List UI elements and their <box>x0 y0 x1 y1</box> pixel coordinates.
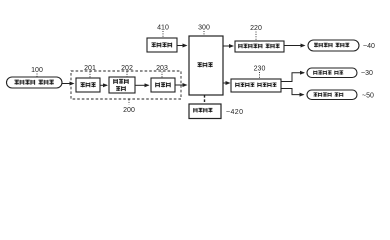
arrow 202 to 203 <box>135 84 149 86</box>
svg-text:~40: ~40 <box>363 43 375 50</box>
arrow oval to 201 <box>62 83 74 85</box>
svg-text:203: 203 <box>156 65 168 72</box>
svg-text:100: 100 <box>31 67 43 74</box>
dashed group 200 <box>71 71 181 99</box>
svg-text:~50: ~50 <box>362 93 374 100</box>
leader tick 200 <box>128 100 130 105</box>
arrow 201 to 202 <box>100 84 107 86</box>
leader tick 230 <box>259 72 261 79</box>
svg-text:202: 202 <box>121 65 133 72</box>
wire 230 to sensor 30 <box>281 73 304 82</box>
rounded sensor 50 <box>307 90 357 100</box>
box 410 input unit <box>147 38 177 52</box>
memory box 420 <box>189 104 221 119</box>
svg-text:201: 201 <box>84 65 96 72</box>
box 220 solenoid driver <box>235 41 284 52</box>
box 202 voltage converter <box>109 77 135 93</box>
arrow 203 to controller <box>175 84 187 86</box>
svg-text:220: 220 <box>250 25 262 32</box>
controller box 300 <box>189 36 223 95</box>
svg-text:300: 300 <box>198 25 210 32</box>
svg-text:410: 410 <box>157 25 169 32</box>
leader tick 202 <box>126 72 128 77</box>
oval text <box>15 80 54 85</box>
leader tick 203 <box>161 72 163 78</box>
leader tick 220 <box>255 32 257 41</box>
wire 230 to sensor 50 <box>281 89 304 95</box>
arrow 220 to valve <box>284 45 305 47</box>
rounded valve 40 <box>308 40 359 51</box>
oval 100 AC input <box>7 77 63 88</box>
svg-text:200: 200 <box>123 107 135 114</box>
wire controller to memory <box>204 95 206 104</box>
svg-text:~420: ~420 <box>226 109 243 116</box>
arrow controller to 230 <box>223 82 230 84</box>
arrow controller to 220 <box>223 45 233 47</box>
svg-text:230: 230 <box>254 66 266 73</box>
leader tick 201 <box>89 72 91 78</box>
rounded sensor 30 <box>307 68 357 78</box>
leader tick 100 <box>36 74 38 78</box>
svg-text:~30: ~30 <box>361 70 373 77</box>
box 230 sensor driver <box>231 79 281 92</box>
box 201 rectifier <box>76 78 100 92</box>
arrow 410 to controller <box>177 45 187 47</box>
leader tick 410 <box>162 31 164 38</box>
box 203 comparator <box>151 78 175 92</box>
leader tick 300 <box>203 31 205 36</box>
